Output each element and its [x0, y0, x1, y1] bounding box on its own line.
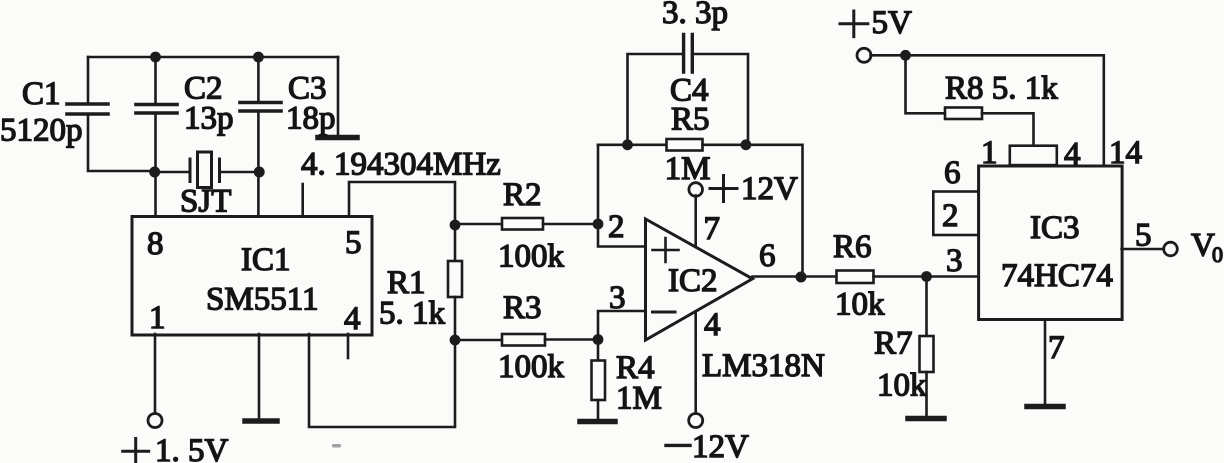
- svg-text:2: 2: [942, 198, 959, 234]
- svg-text:5V: 5V: [872, 5, 913, 41]
- svg-text:IC2: IC2: [668, 263, 718, 299]
- svg-text:10k: 10k: [835, 287, 885, 323]
- svg-text:4: 4: [704, 307, 721, 343]
- svg-text:6: 6: [759, 238, 776, 274]
- svg-text:R5: R5: [671, 102, 710, 138]
- svg-text:8: 8: [147, 226, 164, 262]
- svg-text:C1: C1: [22, 76, 61, 112]
- svg-text:7: 7: [704, 211, 721, 247]
- svg-text:R8 5. 1k: R8 5. 1k: [945, 71, 1058, 107]
- svg-text:18p: 18p: [286, 101, 336, 137]
- svg-text:SJT: SJT: [180, 184, 231, 220]
- svg-text:1. 5V: 1. 5V: [155, 433, 229, 463]
- svg-text:1: 1: [981, 135, 998, 171]
- svg-text:IC3: IC3: [1030, 210, 1080, 246]
- svg-text:5120p: 5120p: [0, 113, 83, 149]
- svg-text:0: 0: [1212, 242, 1223, 267]
- svg-text:1: 1: [149, 300, 166, 336]
- svg-text:100k: 100k: [498, 239, 565, 275]
- svg-text:R6: R6: [833, 229, 872, 265]
- svg-text:3. 3p: 3. 3p: [662, 0, 728, 31]
- svg-text:5. 1k: 5. 1k: [379, 296, 446, 332]
- svg-text:2: 2: [608, 209, 625, 245]
- svg-text:1M: 1M: [616, 381, 662, 417]
- svg-text:6: 6: [944, 155, 961, 191]
- svg-text:R7: R7: [874, 326, 913, 362]
- svg-text:5: 5: [1135, 218, 1152, 254]
- svg-text:7: 7: [1048, 330, 1065, 366]
- svg-text:R3: R3: [503, 290, 542, 326]
- svg-text:12V: 12V: [741, 171, 798, 207]
- svg-text:100k: 100k: [498, 349, 565, 385]
- svg-text:1M: 1M: [665, 151, 711, 187]
- svg-text:IC1: IC1: [241, 242, 291, 278]
- svg-text:LM318N: LM318N: [702, 348, 825, 384]
- svg-text:3: 3: [946, 243, 963, 279]
- svg-text:13p: 13p: [184, 101, 234, 137]
- svg-text:10k: 10k: [877, 368, 927, 404]
- svg-text:74HC74: 74HC74: [1001, 258, 1113, 294]
- svg-text:14: 14: [1109, 135, 1142, 171]
- svg-text:SM5511: SM5511: [206, 282, 318, 318]
- svg-text:4. 194304MHz: 4. 194304MHz: [301, 147, 501, 183]
- svg-text:R2: R2: [503, 177, 542, 213]
- svg-text:4: 4: [1064, 137, 1081, 173]
- svg-text:12V: 12V: [692, 429, 749, 463]
- svg-text:3: 3: [609, 280, 626, 316]
- svg-text:4: 4: [344, 301, 361, 337]
- svg-text:5: 5: [345, 225, 362, 261]
